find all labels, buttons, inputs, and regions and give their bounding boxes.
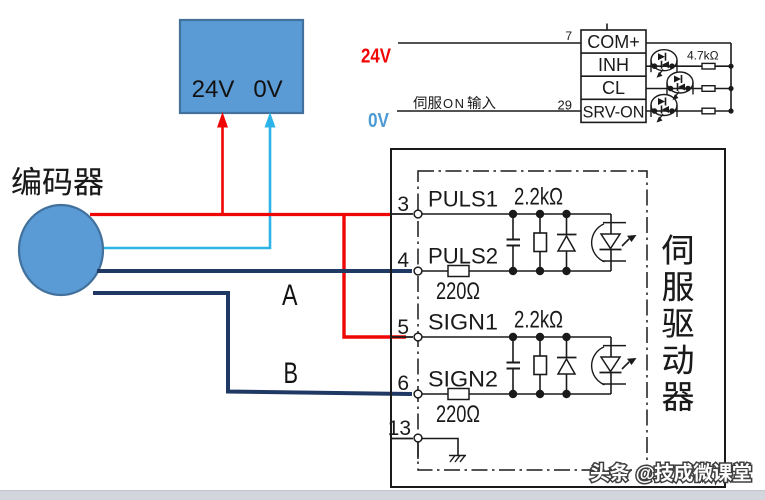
junction dot xyxy=(536,333,544,341)
svg-text:0V: 0V xyxy=(368,110,390,132)
svg-text:COM+: COM+ xyxy=(587,32,640,52)
label 伺服驱动器 (servo driver) xyxy=(662,234,693,411)
svg-text:6: 6 xyxy=(397,372,409,395)
diode xyxy=(557,337,577,394)
wire navy A encoder to PULS2 terminal 4 xyxy=(97,269,412,273)
resistor 2.2k vertical xyxy=(534,337,547,394)
wire 0V to SRV-ON pin 29 xyxy=(397,110,581,112)
svg-text:4: 4 xyxy=(397,249,409,272)
svg-text:220Ω: 220Ω xyxy=(436,401,480,428)
svg-text:0V: 0V xyxy=(253,76,282,103)
servo driver outer box xyxy=(391,149,725,487)
svg-text:2.2kΩ: 2.2kΩ xyxy=(514,307,563,334)
wire cyan 0V encoder return xyxy=(104,122,270,248)
servo driver inner dash-dot boundary xyxy=(418,171,647,470)
resistor 220 ohm xyxy=(448,389,469,400)
svg-text:SIGN1: SIGN1 xyxy=(428,310,498,335)
wire red +24V encoder to PULS1 terminal 3 xyxy=(90,213,391,216)
terminal 4 circle xyxy=(414,267,422,275)
svg-text:A: A xyxy=(282,279,298,312)
resistor 220 ohm xyxy=(448,266,469,277)
svg-text:5: 5 xyxy=(397,316,409,339)
bottom window bar xyxy=(0,490,765,500)
optocoupler LED xyxy=(592,337,626,394)
24V/0V power supply box xyxy=(180,20,303,113)
bus vertical right xyxy=(730,43,732,111)
wire PULS1 row xyxy=(391,213,413,215)
junction dot bus/CL xyxy=(728,86,733,91)
svg-text:24V: 24V xyxy=(361,46,392,68)
wire CL row xyxy=(646,88,731,90)
wire red branch down to SIGN1 terminal 5 xyxy=(344,213,406,337)
svg-text:@: @ xyxy=(636,463,656,485)
svg-text:2.2kΩ: 2.2kΩ xyxy=(514,184,563,211)
wire 24V to COM+ pin 7 xyxy=(398,42,581,44)
cyan arrowhead into 0V xyxy=(265,112,276,128)
capacitor xyxy=(507,337,521,394)
svg-text:29: 29 xyxy=(558,98,572,113)
svg-text:CL: CL xyxy=(602,78,625,98)
wire SIGN1 row xyxy=(391,336,413,338)
light arrow xyxy=(622,235,637,246)
junction dot bus/SRV-ON xyxy=(728,108,733,113)
wire red arrow up into 24V xyxy=(217,112,228,214)
wire navy B encoder to SIGN2 terminal 6 xyxy=(93,293,412,394)
junction dot xyxy=(562,210,570,218)
svg-text:3: 3 xyxy=(397,193,409,216)
junction dot xyxy=(536,210,544,218)
resistor 2.2k vertical xyxy=(534,214,547,271)
svg-text:7: 7 xyxy=(565,29,572,43)
svg-text:13: 13 xyxy=(388,417,411,440)
junction dot xyxy=(562,333,570,341)
wire SRV-ON row xyxy=(646,110,731,112)
wire INH row xyxy=(646,65,731,67)
optocoupler LED xyxy=(592,214,626,271)
terminal 13 circle xyxy=(414,434,422,442)
optocoupler INH input xyxy=(651,50,677,78)
capacitor xyxy=(507,214,521,271)
wire terminal 13 to ground xyxy=(391,438,413,440)
svg-text:ON: ON xyxy=(443,96,466,111)
svg-text:4.7kΩ: 4.7kΩ xyxy=(687,49,719,63)
svg-text:B: B xyxy=(284,357,299,390)
wire PULS2 row xyxy=(422,270,611,272)
terminal 3 circle xyxy=(414,210,422,218)
svg-text:SRV-ON: SRV-ON xyxy=(583,103,645,121)
light arrow xyxy=(622,358,637,369)
connector block COM+/INH/CL/SRV-ON xyxy=(581,24,646,123)
label 伺服ON输入 xyxy=(413,96,495,111)
resistor CL 4.7k xyxy=(702,86,715,92)
terminal 6 circle xyxy=(414,390,422,398)
wire below terminal 13 xyxy=(417,443,419,460)
svg-text:INH: INH xyxy=(598,55,629,75)
terminal 5 circle xyxy=(414,333,422,341)
optocoupler CL input xyxy=(667,72,693,100)
ground symbol xyxy=(449,456,466,463)
diode xyxy=(557,214,577,271)
svg-text:220Ω: 220Ω xyxy=(436,278,480,305)
junction dot xyxy=(509,210,517,218)
junction dot xyxy=(509,333,517,341)
wire SIGN2 row xyxy=(422,393,611,395)
junction dot bus/INH xyxy=(728,64,733,69)
encoder label 编码器 xyxy=(12,167,103,196)
wire COM+ to bus xyxy=(646,42,731,44)
optocoupler SRV-ON input xyxy=(651,95,677,123)
encoder (motor) circle xyxy=(19,205,103,295)
svg-text:24V: 24V xyxy=(192,76,235,103)
watermark 头条@技成微课堂 xyxy=(591,463,751,485)
resistor INH 4.7k xyxy=(702,63,715,69)
resistor SRV-ON 4.7k xyxy=(702,108,715,114)
svg-text:PULS1: PULS1 xyxy=(428,187,498,212)
